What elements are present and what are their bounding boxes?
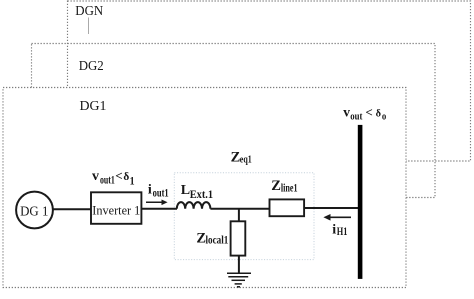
- current arrow iH1: [323, 214, 351, 221]
- inverter U1 box: [91, 192, 141, 224]
- wire inverter to inductor: [141, 208, 177, 210]
- svg-text:DG1: DG1: [80, 98, 107, 113]
- svg-text:<: <: [365, 104, 372, 119]
- svg-text:Z: Z: [271, 178, 281, 194]
- label DG1: [80, 98, 107, 113]
- svg-text:eq1: eq1: [240, 154, 252, 166]
- svg-text:i: i: [148, 183, 152, 198]
- wire junction down to Zlocal1: [238, 209, 240, 222]
- label Zeq1: [231, 150, 252, 166]
- svg-text:local1: local1: [206, 235, 229, 247]
- svg-text:DG2: DG2: [79, 58, 104, 73]
- svg-text:δ: δ: [376, 107, 382, 119]
- svg-text:1: 1: [130, 176, 135, 188]
- label vout1 < delta1: [92, 168, 135, 188]
- inductor LExt,1: [177, 202, 211, 209]
- DG block N (outer dotted box): [68, 1, 471, 161]
- svg-text:v: v: [92, 169, 99, 184]
- bus bar: [358, 125, 363, 279]
- label Zlocal1: [196, 231, 228, 247]
- label LExt.1: [181, 183, 214, 201]
- svg-text:v: v: [343, 104, 350, 119]
- svg-text:line1: line1: [281, 183, 298, 195]
- impedance Zlocal1 box: [231, 221, 246, 255]
- label Zline1: [271, 178, 297, 195]
- DG block 2 (middle dotted box): [32, 44, 436, 198]
- svg-text:δ: δ: [123, 169, 129, 183]
- impedance Zline1 box: [270, 199, 305, 216]
- label Inverter 1: [92, 202, 140, 217]
- wire Zline1 to bus: [304, 207, 358, 209]
- svg-text:Inverter 1: Inverter 1: [92, 202, 140, 217]
- wire DG1 circle to inverter: [53, 208, 91, 210]
- continuation mark below DGN: [88, 18, 90, 35]
- wire Zlocal1 to ground: [238, 256, 240, 274]
- label DGN: [75, 3, 103, 18]
- svg-text:H1: H1: [337, 226, 348, 238]
- label iout1: [148, 183, 169, 200]
- label DG2: [79, 58, 104, 73]
- svg-text:DGN: DGN: [75, 3, 103, 18]
- svg-text:DG 1: DG 1: [20, 204, 48, 219]
- DG block 1 (front dotted box): [3, 88, 406, 288]
- svg-text:<: <: [115, 168, 122, 183]
- equivalent impedance region Zeq1 (dashed box): [174, 173, 314, 260]
- svg-text:out1: out1: [100, 174, 115, 186]
- current arrow iout1: [146, 200, 168, 206]
- wire inductor to Zline1: [210, 208, 269, 210]
- label vout < delta_o: [343, 104, 386, 122]
- svg-text:out1: out1: [153, 187, 169, 199]
- label DG 1: [20, 204, 48, 219]
- label iH1: [332, 222, 347, 238]
- svg-text:i: i: [332, 222, 336, 237]
- ground: [227, 273, 251, 287]
- svg-text:Ext.1: Ext.1: [190, 189, 214, 201]
- svg-text:o: o: [382, 110, 387, 122]
- source DG 1 (circle): [16, 192, 53, 229]
- svg-text:out: out: [350, 110, 362, 122]
